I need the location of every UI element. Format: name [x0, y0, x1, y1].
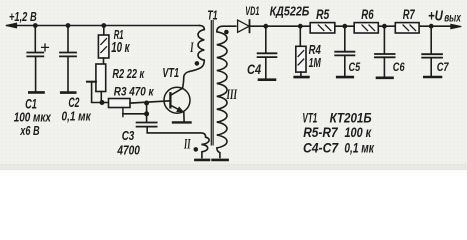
node : junction tap/C3: [144, 111, 149, 116]
wire : R4 drop: [299, 26, 301, 46]
wire : collector up to winding I: [183, 71, 190, 88]
svg-text:VT1: VT1: [162, 66, 179, 80]
ground : winding III bar: [213, 159, 228, 162]
label C4: [247, 62, 261, 77]
capacitor C2: [60, 53, 76, 57]
svg-text:0,1 мк: 0,1 мк: [344, 140, 374, 156]
wire : C7 ground stub: [430, 59, 432, 76]
label C1 value 100mk: [14, 111, 52, 124]
wire : rail to R1: [103, 26, 105, 36]
label C2: [68, 95, 79, 111]
note KT201B: [330, 109, 372, 125]
node : junction C7/rail: [429, 24, 434, 29]
capacitor C5: [335, 52, 354, 56]
note 100k: [345, 125, 372, 141]
node : junction C4/rail: [263, 24, 268, 29]
ground : VT1 emitter bar: [173, 121, 191, 123]
node : winding I phase dot: [195, 61, 200, 66]
capacitor C3 4700: [137, 123, 157, 127]
ground : C6 bar: [377, 77, 393, 80]
inductor winding II (feedback): [201, 137, 209, 157]
svg-text:+1,2 В: +1,2 В: [9, 11, 37, 25]
svg-text:R5-R7: R5-R7: [303, 124, 338, 140]
svg-text:R7: R7: [403, 7, 415, 22]
node : junction R4/rail: [298, 24, 303, 29]
wire : C2 drop: [67, 26, 69, 52]
wire : output rail: [250, 25, 451, 27]
svg-text:КД522Б: КД522Б: [270, 5, 310, 19]
svg-text:R4: R4: [309, 44, 322, 58]
label T1: [207, 9, 217, 23]
wire : R3 bottom tap stub: [122, 108, 124, 117]
wire : C7 drop: [430, 26, 432, 53]
resistor R7 100k (horizontal box): [395, 23, 419, 33]
node : junction C6/rail: [382, 24, 387, 29]
wire : R4 ground stub: [300, 72, 302, 76]
note 0,1mk: [344, 140, 374, 156]
inductor winding III (secondary): [217, 26, 236, 157]
label winding III: [226, 86, 238, 103]
label C7: [437, 61, 450, 74]
svg-text:C2: C2: [68, 95, 79, 111]
wire : C5 ground stub: [344, 56, 346, 75]
wire : base line R3 to VT1: [130, 101, 170, 103]
wire : R1 to R2: [103, 58, 105, 64]
svg-text:II: II: [183, 135, 191, 152]
svg-text:100 к: 100 к: [345, 125, 372, 141]
svg-text:R6: R6: [361, 7, 374, 22]
label C1: [25, 96, 37, 113]
wire : C2 to ground stub: [67, 57, 69, 91]
label R5: [316, 7, 329, 23]
label C6: [393, 61, 406, 75]
label winding I: [190, 39, 195, 56]
wire : R2 bottom to node: [100, 92, 102, 103]
wire : +1,2V top rail: [7, 25, 200, 27]
node : junction C1/rail: [33, 23, 38, 28]
label C5: [349, 61, 361, 74]
svg-text:Т1: Т1: [207, 9, 217, 23]
wire : node to C3: [146, 114, 148, 122]
label R2 value: [112, 67, 145, 81]
label +U output: [428, 7, 443, 24]
svg-text:0,1 мк: 0,1 мк: [62, 109, 92, 124]
label R6: [361, 7, 374, 22]
node : junction R2/R3: [100, 100, 105, 105]
svg-text:10 к: 10 к: [111, 39, 130, 55]
svg-text:4700: 4700: [117, 142, 141, 158]
node : junction R1/rail: [101, 23, 106, 28]
svg-text:100 мкх: 100 мкх: [14, 111, 52, 124]
resistor R4 1M (vertical box): [296, 46, 306, 72]
wire : C4 drop: [265, 26, 267, 52]
ground : R4 bar: [295, 76, 309, 79]
label R3 value: [114, 86, 154, 99]
capacitor C7: [422, 54, 442, 57]
label R4 value 1M: [309, 57, 322, 71]
ground : C1 common bar: [29, 91, 43, 94]
capacitor C1 (electrolytic, + mark): [27, 44, 48, 56]
wire : bias node line: [92, 102, 109, 104]
label C3: [122, 130, 135, 143]
svg-text:R3 470 к: R3 470 к: [114, 86, 154, 99]
resistor R2 22k (vertical box): [96, 64, 106, 92]
wire : C1 to ground stub: [35, 57, 37, 91]
ground : winding II bar: [195, 159, 209, 162]
label winding II: [183, 135, 191, 152]
diode VD1 KD522B: [238, 20, 250, 32]
wire : C5 drop: [344, 26, 346, 51]
ground : C5 bar: [337, 76, 353, 79]
wire : C1 drop: [34, 26, 36, 52]
node : input arrow terminal: [6, 23, 17, 28]
label +1,2V input: [9, 11, 37, 25]
label R1 value: [111, 39, 130, 55]
svg-text:C6: C6: [393, 61, 406, 75]
wire : C4 ground stub: [265, 58, 267, 78]
wire : C6 ground stub: [383, 58, 385, 76]
node : winding II phase dot: [194, 147, 199, 152]
ground : C2 common bar: [61, 91, 75, 94]
ground : C4 bar: [259, 78, 275, 81]
svg-text:С4-С7: С4-С7: [303, 140, 339, 156]
svg-text:R5: R5: [316, 7, 329, 23]
note C4-C7: [303, 140, 339, 156]
label R7: [403, 7, 415, 22]
inductor winding I (T1 primary): [190, 26, 205, 72]
svg-text:R2 22 к: R2 22 к: [112, 67, 145, 81]
label R4: [309, 44, 322, 58]
svg-text:III: III: [226, 86, 238, 103]
node : junction C5/rail: [342, 24, 347, 29]
resistor R5 100k (horizontal box): [310, 23, 335, 33]
svg-text:C7: C7: [437, 61, 450, 74]
svg-text:C5: C5: [349, 61, 361, 74]
label VD1: [245, 5, 259, 18]
transformer T1 core: [211, 21, 213, 145]
svg-text:+U: +U: [428, 7, 443, 24]
label C3 value: [117, 142, 141, 158]
transistor VT1 KT201B (NPN): [164, 87, 190, 121]
node : junction base/C3 branch: [144, 101, 149, 106]
wire : C3 to winding II: [147, 128, 206, 138]
wire : base node down: [146, 103, 148, 114]
wire : R2 side tap lead: [87, 82, 96, 102]
label C1 value x6V: [19, 125, 39, 139]
svg-text:вых: вых: [444, 12, 461, 25]
capacitor C6: [375, 54, 395, 57]
label VD1 type KD522B: [270, 5, 310, 19]
resistor R3 470k (horizontal box): [109, 99, 131, 108]
resistor R6 100k (horizontal box): [354, 23, 378, 33]
resistor R1 10k (vertical box with rating strokes): [98, 35, 109, 58]
node : output arrow terminal: [451, 24, 462, 28]
svg-text:VD1: VD1: [245, 5, 259, 18]
wire : C6 drop: [383, 26, 385, 53]
label C2 value: [62, 109, 92, 124]
label VT1: [162, 66, 179, 80]
node : junction C2/rail: [66, 23, 71, 28]
svg-text:х6 В: х6 В: [19, 125, 39, 139]
svg-text:C4: C4: [247, 62, 261, 77]
svg-text:1М: 1М: [309, 57, 322, 71]
ground : C7 bar: [424, 76, 441, 79]
svg-text:КТ201Б: КТ201Б: [330, 109, 372, 125]
note VT1: [302, 111, 317, 126]
label R1: [114, 28, 124, 43]
capacitor C4: [258, 53, 277, 57]
svg-text:C1: C1: [25, 96, 37, 113]
node : winding III phase dot: [224, 30, 229, 35]
label U subscript vyh: [444, 12, 461, 25]
note R5-R7: [303, 124, 338, 140]
wire : tap line to C3 node: [123, 113, 147, 115]
